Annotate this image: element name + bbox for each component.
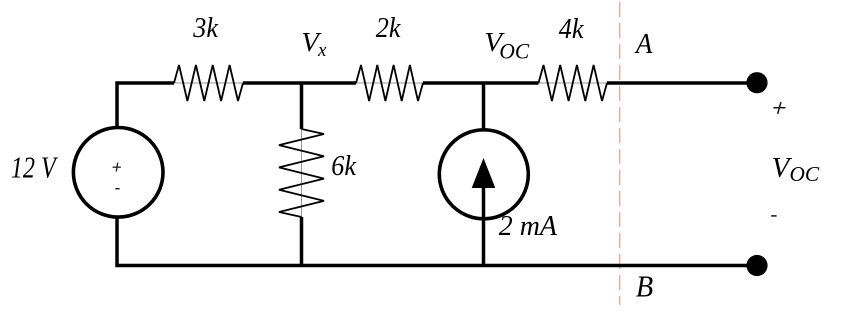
wire 4k to terminal A — [607, 81, 757, 85]
current source arrow shaft — [482, 166, 486, 218]
resistor R3 4k — [539, 65, 608, 101]
svg-text:B: B — [636, 269, 653, 304]
svg-text:OC: OC — [499, 39, 529, 64]
svg-text:6k: 6k — [331, 151, 356, 182]
wire thin line under resistor R4 (6k) — [301, 129, 303, 217]
resistor R2 2k — [356, 65, 423, 101]
wire thin line under resistor R1 — [174, 82, 243, 84]
current source arrowhead — [472, 158, 496, 188]
wire bottom rail — [117, 217, 757, 266]
resistor R4 6k — [279, 129, 324, 217]
current source I1 2mA — [439, 130, 528, 219]
wire 6k to bottom rail — [300, 217, 304, 266]
svg-text:2k: 2k — [376, 13, 401, 44]
svg-text:A: A — [634, 28, 653, 60]
terminal dot B — [746, 255, 767, 276]
svg-text:2 mA: 2 mA — [499, 211, 558, 242]
polarity plus inside V1 — [113, 166, 121, 168]
wire current source to bottom rail — [482, 218, 486, 266]
resistor R1 3k — [174, 65, 243, 101]
svg-text:4k: 4k — [559, 14, 584, 45]
wire node Voc drop to current source — [482, 83, 486, 130]
polarity minus inside V1 — [115, 188, 119, 190]
voltage source V1 12V — [73, 128, 163, 218]
label + terminal — [773, 107, 785, 109]
wire thin line under resistor R3 — [539, 82, 608, 84]
svg-text:12 V: 12 V — [11, 150, 58, 185]
wire segment 2k to 4k (node Voc) — [423, 81, 539, 85]
svg-text:x: x — [317, 40, 327, 61]
wire top-left segment — [117, 83, 174, 129]
wire top middle segment (node Vx to 2k) — [243, 81, 356, 85]
svg-text:OC: OC — [790, 162, 821, 186]
svg-text:3k: 3k — [192, 13, 218, 44]
dashed cut line A-B — [619, 2, 621, 305]
wire thin line under resistor R2 — [356, 82, 423, 84]
label - terminal — [771, 215, 776, 217]
terminal dot A — [746, 72, 767, 93]
wire node Vx drop — [300, 83, 304, 129]
